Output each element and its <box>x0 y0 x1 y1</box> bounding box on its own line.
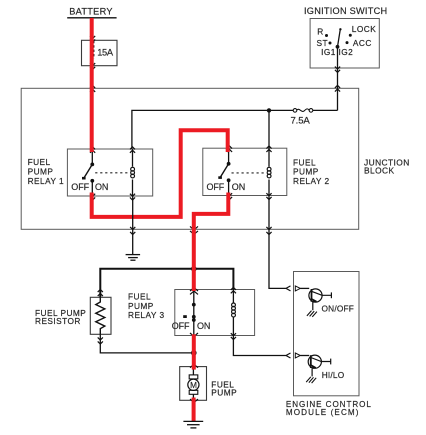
svg-text:R: R <box>317 26 323 36</box>
svg-text:RELAY 1: RELAY 1 <box>28 176 65 186</box>
svg-text:ACC: ACC <box>353 38 372 48</box>
svg-text:IG1: IG1 <box>321 47 336 57</box>
svg-text:IG2: IG2 <box>339 47 354 57</box>
svg-text:ON: ON <box>95 182 108 192</box>
svg-text:MODULE (ECM): MODULE (ECM) <box>286 408 360 417</box>
svg-text:ON/OFF: ON/OFF <box>322 304 355 314</box>
svg-text:M: M <box>190 381 197 390</box>
svg-text:OFF: OFF <box>71 182 89 192</box>
svg-text:ON: ON <box>197 321 210 331</box>
svg-text:OFF: OFF <box>172 321 190 331</box>
svg-text:LOCK: LOCK <box>352 24 376 34</box>
svg-text:HI/LO: HI/LO <box>322 370 345 380</box>
svg-text:ON: ON <box>232 182 245 192</box>
svg-text:RELAY 3: RELAY 3 <box>128 310 165 320</box>
svg-text:BLOCK: BLOCK <box>364 165 395 175</box>
svg-text:PUMP: PUMP <box>211 388 237 398</box>
svg-text:BATTERY: BATTERY <box>69 7 113 17</box>
svg-text:15A: 15A <box>97 48 114 58</box>
svg-text:7.5A: 7.5A <box>291 115 311 126</box>
svg-text:RELAY 2: RELAY 2 <box>293 176 330 186</box>
svg-text:IGNITION SWITCH: IGNITION SWITCH <box>304 6 387 16</box>
svg-text:RESISTOR: RESISTOR <box>35 316 81 326</box>
svg-text:OFF: OFF <box>207 182 225 192</box>
